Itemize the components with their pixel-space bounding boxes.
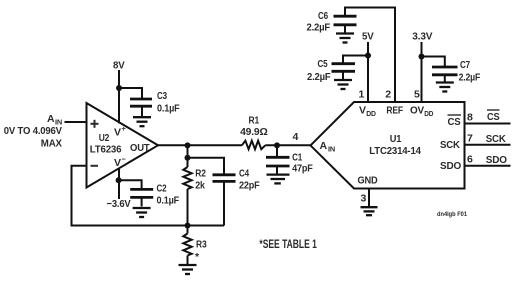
svg-text:A: A [320,140,328,152]
svg-text:*: * [195,251,200,263]
svg-text:1: 1 [359,89,365,101]
svg-text:C6: C6 [318,10,328,22]
svg-text:IN: IN [328,145,335,154]
svg-text:6: 6 [467,153,473,165]
svg-text:DD: DD [424,109,434,118]
svg-text:−3.6V: −3.6V [107,198,131,210]
svg-text:GND: GND [358,175,379,187]
svg-text:4: 4 [293,131,299,143]
svg-text:C2: C2 [157,183,167,195]
svg-text:3.3V: 3.3V [412,31,432,43]
svg-text:C5: C5 [318,58,328,70]
svg-text:DD: DD [366,109,376,118]
svg-text:U2: U2 [99,132,110,144]
svg-text:R2: R2 [195,168,206,180]
svg-text:V: V [359,105,366,117]
svg-text:SDO: SDO [440,160,461,172]
svg-text:2: 2 [385,88,391,100]
svg-text:47pF: 47pF [292,163,313,175]
svg-text:SCK: SCK [486,133,506,145]
svg-text:R1: R1 [249,115,260,127]
svg-text:8: 8 [467,112,473,124]
svg-text:V: V [114,157,121,169]
svg-text:5V: 5V [362,31,374,43]
svg-text:OUT: OUT [130,142,150,154]
svg-text:A: A [47,113,55,125]
svg-text:3: 3 [361,193,367,205]
svg-text:SDO: SDO [486,154,507,166]
svg-text:8V: 8V [113,60,125,72]
svg-text:MAX: MAX [41,138,62,150]
svg-text:LTC2314-14: LTC2314-14 [369,145,421,157]
svg-text:22pF: 22pF [239,180,260,192]
svg-text:2.2µF: 2.2µF [307,22,331,34]
svg-text:0.1µF: 0.1µF [157,103,180,115]
svg-text:C3: C3 [157,90,167,102]
svg-text:0V TO 4.096V: 0V TO 4.096V [4,125,62,137]
svg-text:V: V [114,127,121,139]
svg-text:OV: OV [410,105,424,117]
svg-text:C7: C7 [460,59,470,71]
svg-text:*SEE TABLE 1: *SEE TABLE 1 [259,239,317,251]
svg-text:−: − [122,155,127,164]
svg-text:CS: CS [487,111,500,123]
svg-text:49.9Ω: 49.9Ω [240,126,268,138]
svg-text:0.1µF: 0.1µF [157,195,180,207]
svg-text:2k: 2k [195,180,205,192]
svg-text:R3: R3 [196,239,207,251]
svg-text:2.2µF: 2.2µF [459,72,481,84]
svg-text:CS: CS [448,116,461,128]
svg-text:7: 7 [467,132,473,144]
svg-text:2.2µF: 2.2µF [307,71,331,83]
svg-text:SCK: SCK [440,139,460,151]
svg-text:5: 5 [414,88,420,100]
svg-text:dn4lgb F01: dn4lgb F01 [437,211,467,218]
svg-text:U1: U1 [390,133,402,145]
svg-text:REF: REF [386,105,403,117]
svg-text:LT6236: LT6236 [90,144,122,156]
svg-text:C4: C4 [239,168,249,180]
